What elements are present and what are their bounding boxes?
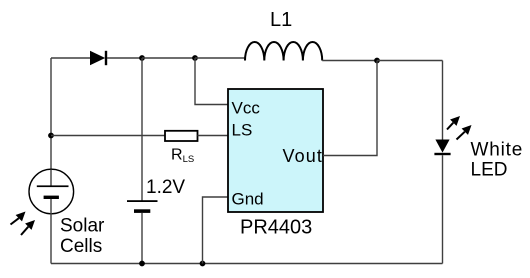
wire battery bottom to ground rail: [141, 213, 143, 264]
svg-text:Vout: Vout: [283, 146, 323, 166]
svg-text:White: White: [471, 140, 524, 161]
wire top-left run (solar node to diode anode): [51, 57, 90, 59]
battery BT1 1.2V: [127, 200, 158, 213]
svg-text:Vcc: Vcc: [232, 99, 261, 118]
label 1.2V: [146, 177, 185, 198]
label White LED: [471, 140, 524, 181]
op IC U1 PR4403 body: [228, 89, 323, 212]
resistor RLS: [165, 131, 198, 141]
svg-text:Solar: Solar: [60, 216, 105, 237]
pin label Gnd: [232, 190, 264, 209]
wire inductor right to node C: [322, 60, 377, 62]
label L1: [270, 9, 292, 31]
label Solar Cells: [60, 216, 105, 258]
wire node C to top-right corner: [377, 60, 443, 62]
wire resistor to LS pin: [198, 135, 229, 137]
node A (diode/battery junction): [139, 55, 145, 61]
svg-text:L1: L1: [270, 9, 292, 31]
solar light arrow 2: [21, 220, 35, 235]
svg-text:Cells: Cells: [60, 236, 102, 257]
solar light arrow 1: [11, 212, 26, 225]
svg-text:PR4403: PR4403: [240, 217, 312, 239]
inductor L1: [245, 42, 322, 61]
node B (Vcc junction): [192, 55, 198, 61]
pin label Vout: [283, 146, 323, 166]
node F (Gnd pin junction): [200, 261, 206, 267]
LED light arrow 1: [447, 116, 460, 130]
wire node A to node B: [142, 57, 195, 59]
wire right side down to LED anode: [442, 61, 444, 140]
pin label Vcc: [232, 99, 261, 118]
wire left vertical (top run down to solar cell): [50, 58, 52, 170]
wire battery column (node A down to battery top): [141, 58, 143, 201]
wire diode cathode to node A: [107, 57, 142, 59]
wire Vcc run (node B down and into Vcc pin): [195, 58, 228, 105]
node E (battery ground junction): [139, 261, 145, 267]
label RLS: [171, 147, 194, 166]
svg-text:Gnd: Gnd: [232, 190, 264, 209]
wire LED cathode down to ground rail: [442, 155, 444, 263]
node D (LS tap on left rail): [48, 133, 54, 139]
wire LS run from node D to resistor: [51, 135, 165, 137]
pin label LS: [232, 121, 253, 140]
LED light arrow 2: [457, 125, 472, 140]
node C (Vout junction): [374, 58, 380, 64]
svg-text:LS: LS: [232, 121, 253, 140]
diode D1: [90, 51, 107, 65]
svg-text:LED: LED: [471, 160, 508, 181]
solar cell PV1: [29, 169, 74, 263]
wire Vout run (pin right, up to node C): [323, 61, 377, 156]
svg-text:1.2V: 1.2V: [146, 177, 185, 198]
wire ground rail (bottom): [51, 263, 443, 265]
wire node B to inductor left: [195, 58, 245, 61]
LED D2 white: [434, 140, 450, 156]
label PR4403: [240, 217, 312, 239]
wire Gnd pin run: [203, 197, 229, 264]
